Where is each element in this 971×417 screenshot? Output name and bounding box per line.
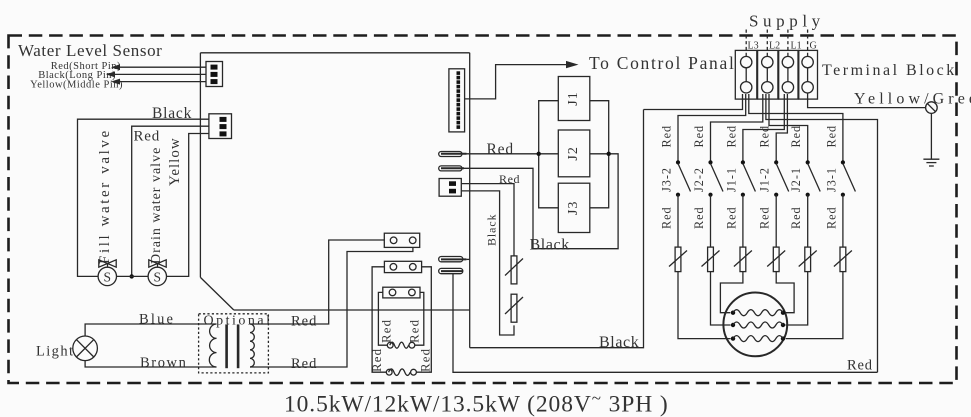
transformer primary coil [209,324,216,367]
wire red secondary bottom [250,247,413,367]
wire L2 to switch J2-2 [711,94,763,161]
wire black bottom bus [470,110,644,348]
control board outline left [199,53,201,278]
wire blue lamp to transformer [85,324,216,336]
switch contact J1-1 [741,160,756,197]
svg-text:Red: Red [758,206,772,229]
svg-text:J3-2: J3-2 [660,167,674,192]
svg-text:Blue: Blue [139,312,175,328]
svg-text:J3: J3 [566,201,581,215]
wire element2 loop [378,292,423,345]
wire red secondary top [250,240,384,324]
fuse below J3-1 [834,247,852,272]
wire L3 to black bus riser [644,94,743,110]
junction dot valves common [130,274,134,278]
switch contact J3-1 [841,160,856,197]
wire switch J3-1 to fuse [842,195,844,247]
supply line L2 dashed [766,30,768,57]
wire sensor yellow with arrow [111,79,206,85]
connector CN4 control board header [449,69,465,132]
wire relay left bracket [539,101,559,208]
wire sensor black with arrow [106,71,206,77]
wire L2 to heater right bus [766,94,878,372]
wire J2-2 fuse to heater R2 left [711,272,731,325]
svg-text:Red: Red [660,125,674,148]
wire black relay return [464,154,618,249]
connector CN3 thermostat 2pin [439,179,461,197]
svg-text:J2: J2 [566,146,581,160]
wire yellow to drain valve [166,134,209,277]
wire switch J2-2 to fuse [710,195,712,247]
svg-text:J1: J1 [566,91,581,105]
thermal cutout F8 [505,294,523,322]
earth ground symbol [923,159,939,166]
wire black to fill valve [78,119,209,276]
supply line G dashed [807,30,809,57]
junction dot relay right [607,152,611,156]
svg-text:Yellow/Green: Yellow/Green [854,91,971,108]
fuse below J2-2 [702,247,720,272]
wire brown lamp to transformer [85,361,216,367]
heater element R3 [731,336,785,342]
svg-text:Red: Red [380,319,394,343]
wire thermostat loop [461,184,514,335]
wire red to valve junction [132,126,209,276]
fuse below J1-1 [734,247,752,272]
svg-text:Red: Red [660,206,674,229]
wire red tab to relay bracket [467,153,539,155]
wire tab J6 to board edge [466,258,469,260]
switch contact J3-2 [676,160,691,197]
svg-text:Black: Black [599,334,639,351]
wire J2-1 fuse to heater R2 right [786,272,808,325]
svg-text:Red: Red [408,319,422,343]
svg-text:Supply: Supply [749,12,825,31]
control board outline right [469,53,471,348]
relay J2 [558,130,590,177]
svg-text:Red: Red [824,206,838,229]
svg-text:Light: Light [36,344,74,360]
wire J1-1 fuse to heater R1 left [720,272,743,313]
wire valve bottom bus [116,275,148,277]
svg-text:To Control Panal: To Control Panal [589,53,736,73]
connector J6 red tab [439,257,467,262]
drain water valve solenoid S [148,260,166,286]
wire to control panel with arrow [465,61,579,99]
transformer T1 optional dashed box [199,314,269,373]
switch contact J2-1 [806,160,821,197]
wire relay right bracket [590,101,609,208]
connector J5 red tab [439,166,464,171]
wire sensor red with arrow [111,64,206,70]
svg-text:J2-1: J2-1 [789,167,803,192]
svg-text:Yellow(Middle Pin): Yellow(Middle Pin) [30,80,123,91]
transformer secondary coil [250,324,254,367]
fuse below J2-1 [799,247,817,272]
svg-text:Red: Red [724,206,738,229]
junction dot relay left [537,152,541,156]
svg-text:J1-1: J1-1 [724,167,738,192]
switch contact J1-2 [774,160,789,197]
svg-text:Red: Red [789,125,803,148]
svg-text:J2-2: J2-2 [692,167,706,192]
heater element R1 [731,310,785,316]
heater element R2 [731,322,785,328]
wire L3 to switch J3-2 [678,94,746,161]
svg-text:Drain water valve: Drain water valve [149,147,164,264]
terminal block TB1 cell L3 [735,50,757,99]
svg-text:Red: Red [291,356,317,372]
relay J3 [558,183,590,232]
wire J3-1 fuse to heater R3 right [786,272,843,339]
wire switch J1-2 to fuse [775,195,777,247]
thermal cutout F7 [505,256,523,284]
wire L1 to switch J1-1 [743,94,784,161]
connector J4 red tab [439,152,467,157]
relay J1 [558,77,590,121]
supply line L1 dashed [787,30,789,57]
wire element1 loop [372,267,431,372]
wire ground yellow/green [808,93,926,108]
svg-text:Red: Red [847,358,873,374]
svg-text:Red: Red [692,206,706,229]
wire bottom red bus [453,274,878,373]
svg-text:J3-1: J3-1 [824,167,838,192]
svg-text:Black: Black [485,213,499,246]
svg-text:Red: Red [487,141,514,158]
svg-text:Red: Red [724,125,738,148]
wire horizontal to board right edge [234,309,470,311]
svg-text:Red: Red [291,314,317,330]
terminal block TB1 cell G [799,50,818,99]
connector CN2 valve harness [209,114,232,139]
connector CN1 water level sensor [206,62,223,87]
lamp symbol [73,336,98,361]
supply line L3 dashed [745,30,747,57]
svg-text:Red: Red [134,129,161,145]
svg-text:Water Level Sensor: Water Level Sensor [18,41,162,60]
wire switch J2-1 to fuse [807,195,809,247]
connector P2 heater element 1 pair [384,261,421,272]
connector P1 power in pair [384,233,419,247]
svg-text:Red: Red [758,125,772,148]
terminal block TB1 cell L1 [779,50,798,99]
fuse below J3-2 [669,247,687,272]
connector J7 red tab [439,268,463,273]
svg-text:Black: Black [530,237,570,254]
control board outline top [200,52,469,54]
svg-text:Red: Red [419,348,433,372]
fill water valve solenoid S [98,260,116,286]
heater motor circle [723,293,787,357]
wire J1-2 fuse to heater R1 right [776,272,794,313]
wire diagonal from board left bottom [200,277,233,310]
svg-text:Red: Red [824,125,838,148]
fuse below J1-2 [767,247,785,272]
svg-text:Red: Red [692,125,706,148]
wire J3-2 fuse to heater R3 left [678,272,731,339]
svg-text:Yellow: Yellow [167,137,183,186]
svg-text:S: S [154,270,162,285]
wire L1 to switch J1-2 [776,94,787,161]
ground terminal circle [926,102,938,114]
svg-text:Brown: Brown [140,355,187,371]
wire switch J3-2 to fuse [677,195,679,247]
transformer core bars [227,324,239,368]
svg-text:10.5kW/12kW/13.5kW (208V~ 3PH: 10.5kW/12kW/13.5kW (208V~ 3PH ) [284,389,669,417]
heater element 2 coil [387,342,414,348]
heater element 1 coil [386,369,416,376]
connector P3 heater element 2 pair [383,287,420,298]
svg-text:J1-2: J1-2 [758,167,772,192]
svg-text:S: S [104,270,112,285]
svg-text:Red: Red [789,206,803,229]
wire L3 to switch J3-1 [749,94,843,161]
wire to earth [930,113,932,158]
terminal block TB1 cell L2 [758,50,778,99]
wire switch J1-1 to fuse [742,195,744,247]
svg-text:Terminal Block: Terminal Block [822,62,957,79]
wire L2 to switch J2-1 [769,94,808,161]
svg-text:Fill water valve: Fill water valve [97,128,113,264]
switch contact J2-2 [708,160,723,197]
